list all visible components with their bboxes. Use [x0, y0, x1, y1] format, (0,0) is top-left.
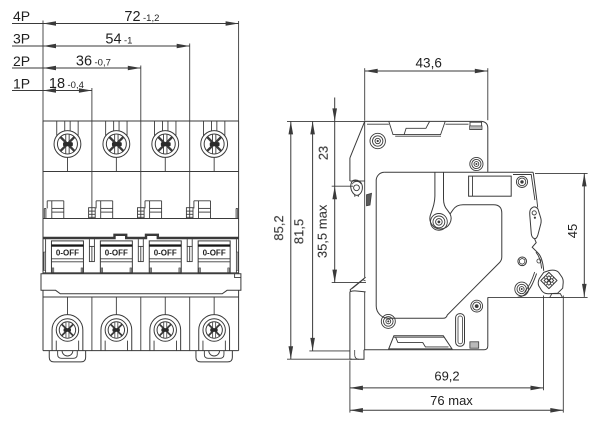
- svg-text:-1: -1: [124, 36, 132, 47]
- top face chamfer second lines: [367, 123, 389, 125]
- svg-text:76 max: 76 max: [430, 393, 473, 408]
- side view outer outline: [365, 121, 488, 171]
- svg-text:69,2: 69,2: [434, 368, 459, 383]
- bottom edge: [364, 297, 488, 349]
- top terminal screws with guide lines: [64, 121, 66, 131]
- svg-text:-0,4: -0,4: [68, 80, 84, 91]
- bottom terminal screws with keyhole housings: [66, 297, 68, 315]
- busbar clips row: [43, 209, 45, 219]
- bottom ramp wedge: [389, 336, 452, 349]
- front plate thick lower edge with tabs: [43, 235, 239, 238]
- svg-text:1P: 1P: [13, 76, 30, 92]
- svg-text:0-OFF: 0-OFF: [105, 249, 128, 258]
- svg-text:54: 54: [105, 32, 121, 48]
- svg-text:3P: 3P: [13, 31, 30, 47]
- lower front curve to base: [518, 274, 537, 298]
- spring wedge: [367, 193, 372, 205]
- svg-text:-0,7: -0,7: [95, 58, 111, 69]
- horizontal width dimensions 72 54 36 18: [43, 23, 239, 25]
- terminal screw (45 deg): [541, 272, 557, 288]
- svg-text:-1,2: -1,2: [143, 13, 159, 24]
- svg-text:23: 23: [316, 146, 331, 160]
- extension lines of width dimensions: [42, 21, 44, 122]
- pole separation lines: [91, 121, 93, 219]
- svg-text:43,6: 43,6: [416, 56, 442, 71]
- svg-text:0-OFF: 0-OFF: [56, 249, 79, 258]
- bottom DIN clip extended: [350, 277, 365, 292]
- svg-text:0-OFF: 0-OFF: [203, 249, 226, 258]
- svg-text:81,5: 81,5: [291, 219, 306, 244]
- top right clip box: [470, 122, 482, 129]
- DIN mounting tabs: [49, 351, 85, 362]
- toggle lever: [530, 207, 541, 239]
- svg-text:18: 18: [49, 76, 65, 92]
- top face recess: [389, 121, 445, 134]
- inner moulding contour: [384, 171, 533, 173]
- lower front band: [41, 274, 241, 294]
- terminal housing: [538, 270, 563, 294]
- svg-text:4P: 4P: [13, 8, 30, 24]
- DIN rail catch with roller: [351, 180, 363, 195]
- svg-text:35,5 max: 35,5 max: [315, 204, 330, 258]
- svg-text:45: 45: [565, 224, 580, 238]
- back foot below base: [349, 292, 351, 360]
- svg-text:85,2: 85,2: [271, 215, 286, 240]
- svg-text:2P: 2P: [13, 53, 30, 69]
- contact blade: [538, 253, 544, 271]
- svg-text:0-OFF: 0-OFF: [154, 249, 177, 258]
- toggle switches 0-OFF: [45, 239, 47, 273]
- rivets: [370, 133, 385, 148]
- front panel edge: [513, 174, 532, 176]
- svg-text:72: 72: [124, 9, 140, 25]
- front view body outline: [43, 120, 239, 122]
- svg-text:36: 36: [76, 54, 92, 70]
- marking window: [469, 176, 512, 196]
- vent slot: [456, 314, 465, 347]
- small grey block: [470, 342, 479, 348]
- front small hole: [518, 257, 527, 266]
